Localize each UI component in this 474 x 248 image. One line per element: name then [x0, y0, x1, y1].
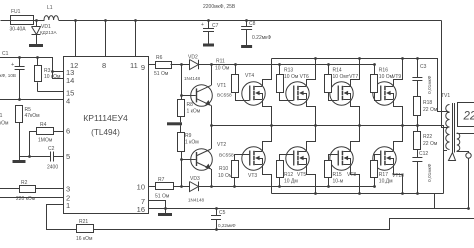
transistor VT10: [373, 147, 396, 170]
fuse FU1: [11, 16, 34, 25]
wire VT7 drain: [351, 59, 360, 87]
svg-text:22 Ом: 22 Ом: [423, 141, 438, 147]
svg-text:R18: R18: [423, 100, 432, 106]
wire pin4 from R1: [0, 99, 63, 101]
svg-text:VD2: VD2: [188, 55, 198, 61]
svg-text:22 Ом: 22 Ом: [423, 107, 438, 113]
svg-text:4: 4: [66, 97, 70, 106]
svg-text:11: 11: [130, 61, 138, 70]
wire pin10 gate line B: [148, 186, 156, 188]
transistor VT1 BC558: [181, 95, 196, 97]
svg-text:1N4148: 1N4148: [184, 76, 201, 81]
svg-text:3: 3: [66, 185, 70, 194]
resistor R8 1k: [181, 65, 183, 100]
resistor R3 10k: [36, 56, 39, 59]
svg-text:16 кОм: 16 кОм: [76, 236, 93, 242]
wire VT5 drain: [307, 59, 316, 87]
pin 12: [75, 20, 77, 56]
svg-text:+: +: [11, 62, 14, 68]
wire VT8 drain: [351, 126, 360, 152]
svg-text:220В: 220В: [463, 111, 474, 123]
wire pin7 to ground: [149, 201, 166, 209]
diode VD2 1N4148: [190, 60, 199, 70]
ground: [180, 116, 182, 122]
svg-text:0,01мкФ: 0,01мкФ: [427, 75, 433, 94]
svg-text:КД213А: КД213А: [40, 30, 57, 35]
wire VT3 drain: [263, 126, 272, 152]
svg-text:2400: 2400: [47, 165, 58, 171]
svg-text:C2: C2: [48, 146, 55, 152]
svg-text:220 кОм: 220 кОм: [16, 196, 36, 202]
svg-text:10 Ом VT6: 10 Ом VT6: [284, 74, 309, 80]
svg-text:R17: R17: [379, 172, 388, 178]
svg-text:10 Ом: 10 Ом: [218, 173, 233, 179]
svg-text:BC558: BC558: [219, 153, 234, 159]
ground: [29, 44, 43, 47]
warning triangle: [449, 153, 456, 161]
transistor VT8: [330, 147, 353, 170]
resistor R11 gate: [235, 65, 237, 75]
svg-text:VT9: VT9: [392, 74, 401, 80]
wire pin1 to R21: [47, 205, 77, 230]
wire VT10 source: [394, 165, 403, 194]
wire VT2 emitter: [211, 169, 213, 186]
svg-text:0,01мкФ: 0,01мкФ: [427, 163, 433, 182]
svg-text:0,22мкФ: 0,22мкФ: [218, 223, 236, 228]
svg-text:R2: R2: [21, 180, 28, 186]
svg-text:1МОм: 1МОм: [38, 138, 53, 144]
svg-text:C12: C12: [419, 151, 428, 157]
svg-text:47кОм: 47кОм: [25, 113, 41, 119]
svg-text:16 кОм: 16 кОм: [0, 121, 9, 127]
resistor R17 gate: [374, 177, 376, 186]
svg-text:+: +: [201, 22, 204, 28]
wire Vref sub-rail to pins 13,14: [0, 57, 52, 59]
svg-text:VD3: VD3: [190, 176, 200, 182]
wire mid bus: [212, 126, 444, 194]
svg-text:14: 14: [66, 76, 74, 85]
resistor R18 22 Ohm: [414, 97, 421, 116]
svg-text:R1: R1: [0, 113, 3, 119]
resistor R5 47k: [16, 106, 23, 123]
pin 8: [105, 20, 107, 56]
transformer core: [452, 103, 454, 153]
resistor R9 1k: [181, 159, 183, 186]
svg-text:0мкФ, 10В: 0мкФ, 10В: [0, 73, 16, 78]
svg-text:R8: R8: [187, 102, 194, 108]
svg-text:R16: R16: [379, 68, 388, 74]
resistor R15 gate: [328, 177, 330, 186]
svg-text:51 Ом: 51 Ом: [154, 71, 169, 77]
transistor VT7: [330, 82, 353, 105]
svg-text:9: 9: [141, 63, 145, 72]
wire drain bus A: [272, 59, 448, 112]
svg-text:VT3: VT3: [248, 173, 257, 179]
svg-text:C3: C3: [420, 64, 427, 70]
svg-text:R21: R21: [79, 219, 88, 225]
resistor R4 1M to pin6: [45, 128, 47, 135]
wire VT5 source: [307, 100, 316, 126]
transistor VT9: [373, 82, 396, 105]
wire VT1 emitter to mid bus: [211, 105, 213, 148]
svg-text:VT1: VT1: [217, 83, 226, 89]
svg-text:R14: R14: [333, 68, 342, 74]
svg-text:10: 10: [137, 183, 145, 192]
resistor R7 51 Ohm: [156, 183, 174, 190]
secondary 220V winding box: [458, 103, 474, 127]
svg-text:R11: R11: [216, 59, 225, 65]
transistor VT5: [286, 82, 309, 105]
wire VT9 drain: [394, 59, 403, 87]
resistor R10 gate: [234, 177, 236, 186]
svg-text:R10: R10: [219, 166, 228, 172]
wire pin2: [0, 197, 63, 199]
resistor R21 16k: [77, 225, 94, 233]
wire ground line: [19, 156, 50, 158]
svg-text:10 Дм: 10 Дм: [284, 179, 298, 185]
pin 11: [135, 20, 137, 56]
wire gate feed line A: [235, 64, 374, 66]
wire source bus B: [272, 193, 444, 195]
svg-text:8: 8: [102, 61, 106, 70]
wire VT7 source: [351, 100, 360, 126]
svg-text:L1: L1: [47, 5, 53, 11]
wire ground bus: [148, 208, 469, 210]
ground: [165, 209, 167, 214]
svg-text:R22: R22: [423, 134, 432, 140]
svg-text:FU1: FU1: [11, 9, 21, 15]
svg-text:R6: R6: [156, 55, 163, 61]
diode VD1 KD213A: [35, 19, 38, 22]
svg-text:КР1114ЕУ4: КР1114ЕУ4: [83, 113, 128, 123]
svg-text:C1: C1: [2, 51, 9, 57]
svg-text:TV1: TV1: [441, 93, 450, 99]
transistor VT2 BC558: [181, 159, 196, 161]
resistor R2 220k pin3: [0, 188, 19, 190]
svg-text:30-40A: 30-40A: [10, 27, 27, 33]
wire VT4 drain: [263, 59, 272, 87]
svg-text:51 Ом: 51 Ом: [155, 194, 170, 200]
svg-text:VT8: VT8: [347, 172, 356, 178]
svg-text:R7: R7: [158, 177, 165, 183]
svg-text:2200мкФ, 25В: 2200мкФ, 25В: [203, 4, 236, 10]
wire VT6 source: [307, 165, 316, 194]
wire feedback bottom: [94, 219, 474, 230]
svg-text:BC558: BC558: [217, 93, 232, 99]
svg-text:1 кОм: 1 кОм: [187, 109, 201, 115]
secondary low winding: [457, 133, 460, 151]
svg-text:VT10: VT10: [392, 173, 404, 179]
svg-text:1: 1: [66, 201, 70, 210]
wire VT8 source: [351, 165, 360, 194]
resistor R6 51 Ohm: [156, 62, 172, 69]
resistor R13 gate: [279, 65, 281, 75]
capacitor C8 0.22uF: [245, 19, 248, 22]
IC U1 KR1114EU4 (TL494): [64, 57, 149, 214]
transistor VT4: [242, 82, 265, 105]
svg-text:R15: R15: [333, 172, 342, 178]
svg-text:VT5: VT5: [297, 172, 306, 178]
svg-text:10,Дм: 10,Дм: [379, 179, 393, 185]
wire VT4 source: [263, 100, 272, 126]
wire pin9 gate line A: [148, 64, 155, 66]
svg-text:VT2: VT2: [217, 142, 226, 148]
ground: [19, 157, 21, 161]
resistor R12 gate: [279, 177, 281, 186]
wire pin15: [37, 82, 39, 91]
svg-text:5: 5: [66, 152, 70, 161]
svg-text:6: 6: [66, 127, 70, 136]
wire +12V top rail: [1, 20, 11, 22]
svg-text:VT4: VT4: [245, 73, 254, 79]
wire VT1 collector: [211, 65, 213, 86]
capacitor C12 0.01uF: [417, 149, 419, 157]
capacitor C3 0.01uF: [416, 57, 419, 60]
inductor L1: [44, 16, 58, 20]
wire VT10 drain: [394, 126, 403, 152]
lamp HL: [466, 153, 471, 158]
wire VT6 drain: [307, 126, 316, 152]
wire pin5: [54, 156, 64, 158]
capacitor C5 0.22uF: [215, 207, 218, 210]
svg-text:1 кОм: 1 кОм: [185, 140, 199, 146]
wire +12V to center tap: [442, 21, 448, 128]
wire VT9 source: [394, 100, 403, 126]
svg-text:16: 16: [137, 205, 145, 214]
resistor R16 gate: [374, 65, 376, 75]
svg-text:R9: R9: [185, 133, 192, 139]
svg-text:10 кОм: 10 кОм: [44, 74, 61, 80]
svg-text:10 Ом: 10 Ом: [215, 66, 230, 72]
svg-text:1N4148: 1N4148: [188, 198, 205, 203]
svg-text:C5: C5: [219, 210, 226, 216]
resistor R22 22 Ohm: [417, 125, 419, 131]
svg-text:R4: R4: [40, 122, 47, 128]
svg-text:10 ОмтVT7: 10 ОмтVT7: [333, 74, 359, 80]
svg-text:(TL494): (TL494): [91, 128, 120, 137]
transistor VT6: [286, 147, 309, 170]
svg-text:R13: R13: [284, 68, 293, 74]
diode VD3 1N4148: [190, 182, 199, 192]
resistor R14 gate: [328, 65, 330, 75]
svg-text:R12: R12: [284, 172, 293, 178]
svg-text:0.22мкФ: 0.22мкФ: [252, 35, 271, 41]
wire gate feed line B: [235, 186, 375, 188]
wire VT3 source: [263, 165, 272, 194]
svg-text:10-м: 10-м: [333, 179, 344, 185]
transistor VT3: [242, 147, 265, 170]
